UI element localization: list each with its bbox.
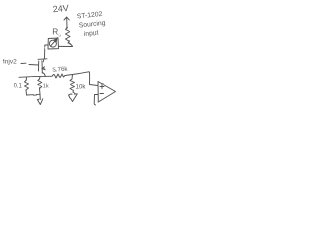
- gate wire: [21, 63, 39, 65]
- resistor 1k branch top: [39, 77, 42, 80]
- svg-text:Injv2: Injv2: [3, 59, 17, 66]
- transistor Q1 source lead: [42, 73, 45, 77]
- svg-text:0.1: 0.1: [14, 84, 23, 90]
- resistor 1k bottom lead: [39, 89, 42, 95]
- ground bottom-left: [37, 99, 43, 105]
- 24V arrow: [64, 17, 69, 28]
- connector J1 circle: [49, 40, 56, 47]
- svg-text:input: input: [83, 29, 99, 38]
- transistor Q1 channel: [41, 61, 43, 74]
- capacitor 0.1 bottom lead: [25, 90, 28, 95]
- connector J1 box: [48, 38, 59, 49]
- transistor Q1 arrow: [42, 67, 46, 70]
- op-amp U1: [98, 82, 116, 103]
- wire resistor to box: [59, 43, 73, 47]
- capacitor 0.1 branch top: [25, 77, 27, 80]
- resistor 10k: [70, 75, 75, 93]
- capacitor 0.1 body: [25, 80, 29, 90]
- wire to ground: [39, 94, 41, 99]
- svg-text:1k: 1k: [43, 84, 49, 90]
- wire junction to op-amp: [73, 72, 98, 86]
- wire box to drain: [45, 46, 49, 60]
- svg-text:10k: 10k: [76, 84, 87, 91]
- op-amp plus: [100, 85, 104, 89]
- svg-text:5.76k: 5.76k: [52, 66, 68, 74]
- svg-text:ST-1202: ST-1202: [76, 11, 103, 21]
- svg-text:R: R: [52, 26, 58, 36]
- transistor Q1 gate bar: [38, 61, 40, 71]
- svg-text:Sourcing: Sourcing: [78, 20, 106, 30]
- node wire left (source node): [19, 76, 52, 77]
- svg-text:u: u: [59, 33, 61, 38]
- resistor 5.76k: [52, 74, 65, 78]
- ground under 10k: [69, 92, 78, 102]
- connector J1 inner mark: [50, 39, 57, 46]
- op-amp minus wire: [94, 95, 98, 105]
- op-amp minus: [100, 93, 104, 95]
- drain wire: [38, 59, 47, 62]
- svg-text:24V: 24V: [52, 3, 69, 14]
- bottom wire: [27, 93, 41, 96]
- resistor 1k body: [38, 79, 42, 89]
- resistor Rpu: [66, 28, 71, 44]
- wire 5.76k to junction: [65, 75, 73, 76]
